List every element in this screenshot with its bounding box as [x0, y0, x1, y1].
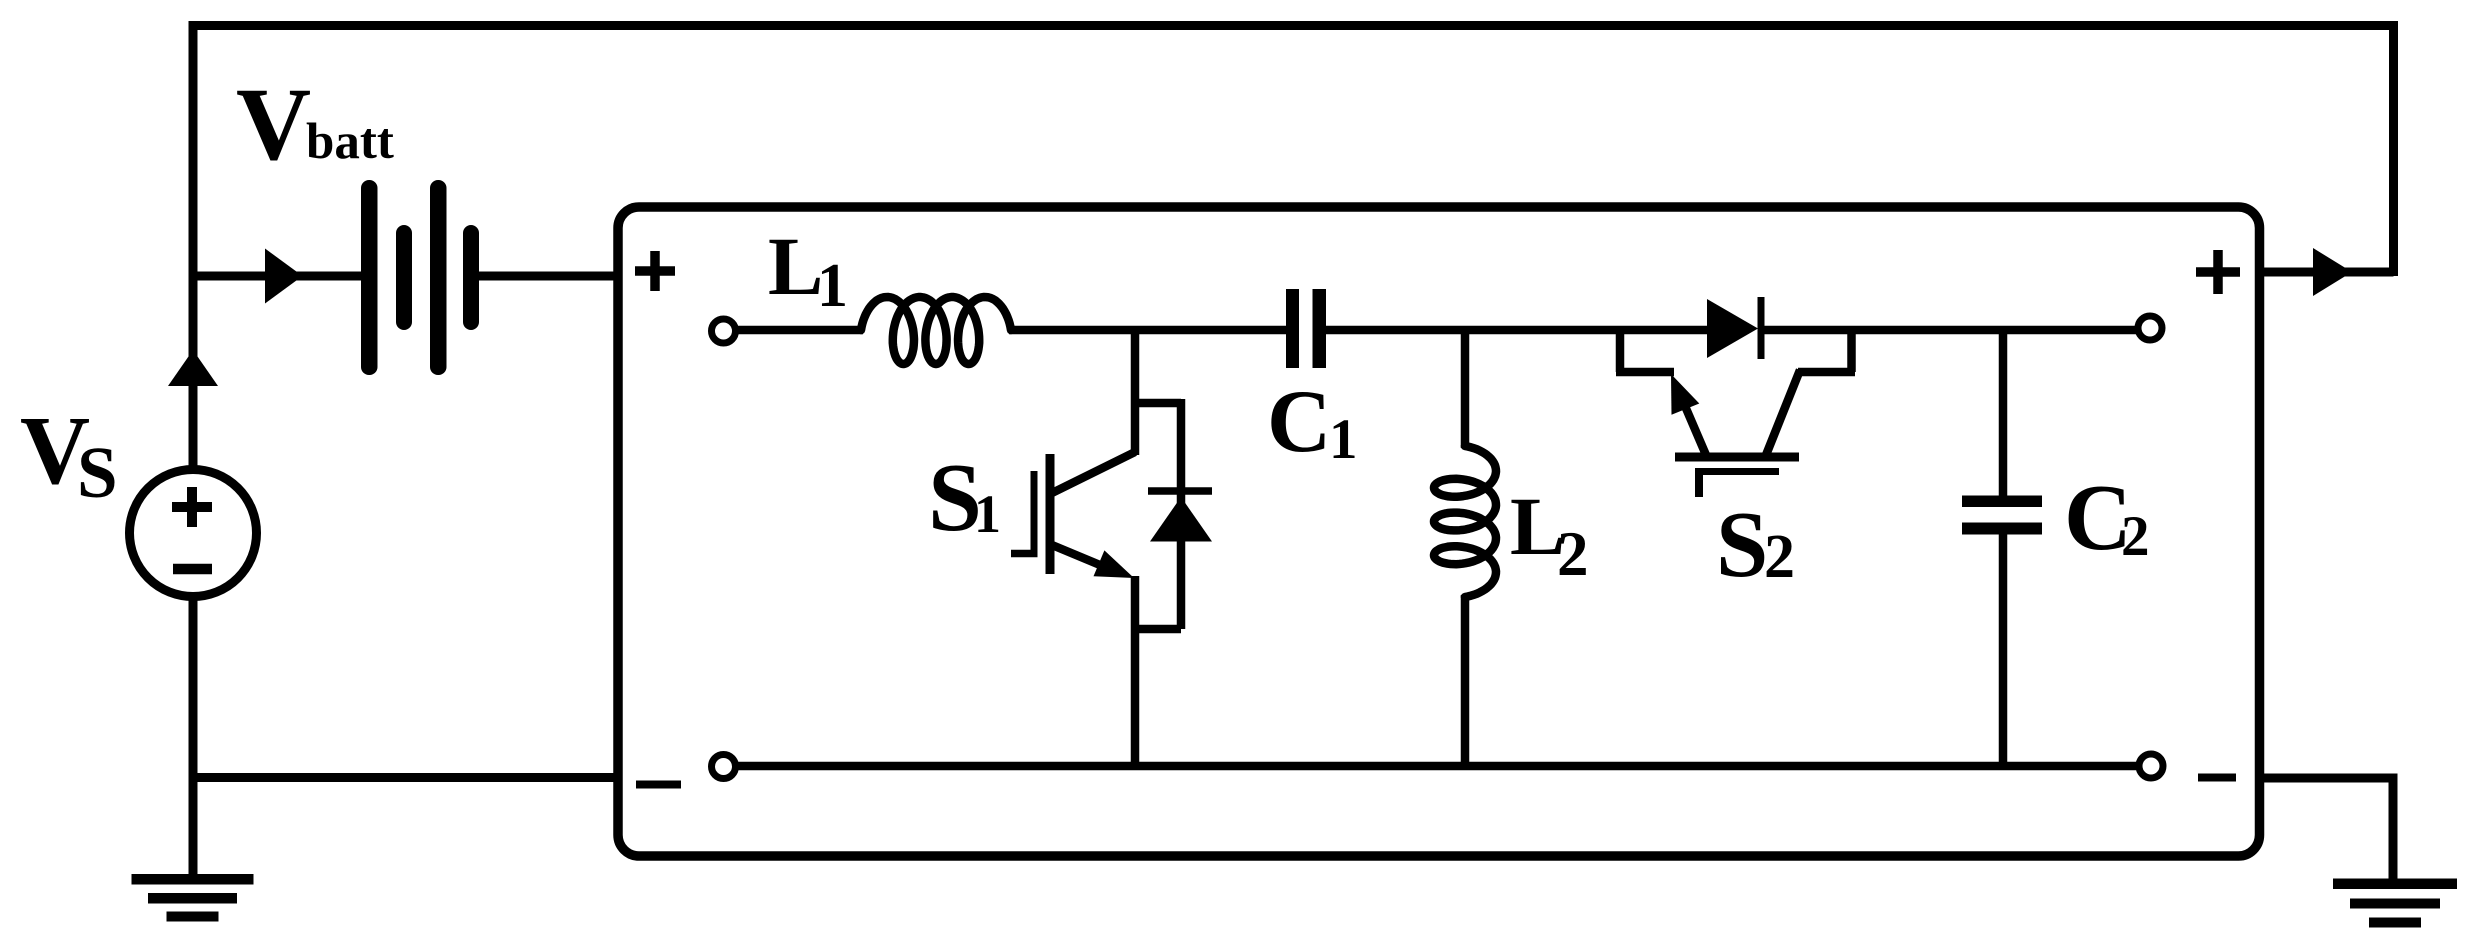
svg-text:1: 1 [1329, 408, 1358, 471]
diode D2 cathode bar [1758, 297, 1765, 359]
svg-text:V: V [236, 67, 311, 182]
wire input to L1 [737, 326, 863, 335]
wire L1 to C1 [1009, 326, 1286, 335]
S2 emitter diagonal [1679, 392, 1706, 455]
wire left vertical from top bus to source Vs [189, 21, 198, 470]
inductor L1 [861, 297, 1011, 364]
svg-text:C: C [1267, 373, 1331, 471]
inductor L2 [1434, 446, 1496, 597]
S2 channel bar [1675, 453, 1799, 462]
S1 channel bar [1046, 454, 1055, 574]
diode D2 series triangle [1707, 299, 1758, 358]
svg-text:L: L [768, 220, 823, 312]
wire right ground vertical [2389, 774, 2398, 881]
S1 emitter arrowhead [1094, 550, 1135, 578]
wire right vertical up to top bus [2389, 21, 2398, 276]
source VS plus [172, 487, 212, 527]
node minus input [636, 781, 681, 789]
source VS circle [130, 470, 257, 597]
node plus input [635, 251, 675, 291]
wire output minus to right ground drop [2264, 774, 2393, 783]
svg-text:S: S [77, 432, 118, 513]
wire C1 to diode D2 [1326, 326, 1712, 335]
wire diode D1 branch vertical [1177, 399, 1186, 629]
wire L2 drop from rail [1461, 330, 1470, 448]
converter box rounded rectangle [618, 207, 2260, 856]
ground right [2333, 879, 2457, 928]
wire diode D2 to output node [1758, 326, 2136, 335]
wire arrow right at output [2313, 248, 2352, 296]
S2 gate lead [1695, 469, 1703, 497]
S1 gate electrode [1031, 471, 1038, 554]
node minus output [2198, 774, 2236, 782]
terminal output bottom circle [2139, 754, 2163, 778]
svg-text:2: 2 [2121, 505, 2150, 568]
diode D1 antiparallel: cathode bar [1148, 487, 1212, 495]
wire S1 emitter to bottom rail [1131, 576, 1140, 766]
S1 gate lead [1011, 550, 1038, 558]
svg-text:batt: batt [306, 114, 394, 170]
wire battery to converter box [479, 272, 618, 281]
source VS minus [173, 564, 212, 575]
S1 emitter diagonal [1052, 545, 1112, 570]
wire diode D1 top stub [1131, 399, 1181, 408]
wire Vs node down to ground [189, 777, 198, 876]
capacitor C2 plates [1962, 496, 2042, 535]
node plus output [2196, 250, 2240, 294]
svg-text:2: 2 [1557, 519, 1589, 589]
transistor S2 IGBT [1616, 330, 1855, 497]
S2 emitter arrowhead [1671, 374, 1699, 415]
wire arrow up on Vs branch [168, 350, 218, 386]
terminal input bottom circle [712, 755, 736, 779]
ground left [132, 874, 254, 922]
wire output plus to right bus [2264, 268, 2394, 277]
wire C2 drop from rail [1999, 330, 2008, 496]
S2 collector diagonal [1766, 370, 1800, 455]
transistor S1 IGBT [1011, 452, 1135, 574]
svg-text:2: 2 [1764, 523, 1795, 591]
wire L2 to bottom rail [1461, 595, 1470, 766]
S2 gate electrode [1695, 468, 1779, 475]
wire bottom left horizontal to box [193, 773, 618, 782]
capacitor C1 plates [1286, 289, 1326, 368]
wire Vs circle to bottom node [189, 597, 198, 782]
wire S1 drop from top rail [1131, 330, 1140, 455]
wire C2 to bottom rail [1999, 534, 2008, 766]
terminal input top circle [712, 319, 736, 343]
S2 left stub horizontal [1616, 368, 1674, 377]
wire top bus from Vs node to output node [193, 21, 2398, 30]
wire horizontal from Vs node to battery [189, 272, 363, 281]
terminal output top circle [2138, 316, 2162, 340]
S2 right stub horizontal [1798, 368, 1855, 377]
svg-text:1: 1 [817, 252, 848, 320]
S2 left stub down [1616, 330, 1625, 372]
S1 collector diagonal [1052, 452, 1135, 493]
S2 right stub down [1847, 330, 1856, 372]
wire arrow right toward battery [265, 249, 303, 304]
svg-text:S: S [1716, 493, 1768, 597]
svg-text:1: 1 [974, 484, 1001, 544]
bottom rail inside box [737, 762, 2137, 771]
diode D1 triangle [1150, 497, 1212, 542]
battery Vbatt plates [361, 180, 479, 375]
wire diode D1 bottom stub [1131, 625, 1181, 634]
